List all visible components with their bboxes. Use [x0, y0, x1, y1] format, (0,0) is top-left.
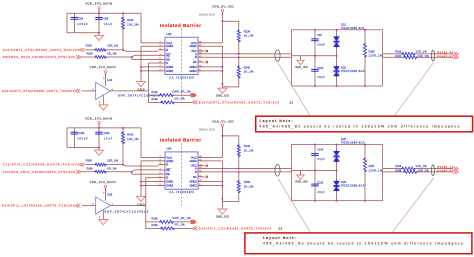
svg-text:VDD_3V3_MAIN: VDD_3V3_MAIN	[85, 2, 112, 6]
svg-text:GND2: GND2	[189, 180, 197, 184]
resistor R149 10R	[383, 170, 454, 174]
svg-text:GND_ISO: GND_ISO	[216, 214, 229, 218]
protection network box	[292, 30, 383, 86]
wire GND pins tie	[140, 161, 158, 196]
differential pair ellipse 1	[275, 165, 280, 177]
TVS diode D25 PESD1MB4.8CA	[334, 138, 365, 170]
port arrow out	[191, 220, 197, 224]
svg-text:1K_1%: 1K_1%	[244, 148, 254, 152]
capacitor C103 20pF	[311, 144, 325, 171]
svg-text:10R_1%: 10R_1%	[416, 165, 428, 168]
svg-text:GND2: GND2	[189, 184, 197, 188]
wire GND mid rail	[292, 55, 338, 57]
TVS diode D26 PESD1MB4.8CA	[334, 171, 365, 202]
svg-text:0R_1%: 0R_1%	[175, 223, 186, 227]
svg-text:R140: R140	[244, 65, 251, 69]
svg-text:B: B	[195, 170, 197, 174]
svg-text:C103: C103	[317, 149, 323, 152]
TVS diode D21 PESD1MB4.8CA	[334, 24, 365, 56]
capacitor C106 20pF	[311, 171, 325, 202]
resistor R140 1K pull-down	[222, 56, 254, 87]
wire A line	[205, 53, 292, 55]
svg-text:GND2: GND2	[189, 69, 197, 73]
svg-text:C100: C100	[317, 67, 323, 70]
isolation barrier dashed line	[181, 143, 183, 206]
isolator IC U24 CA-IS3082WX	[159, 147, 205, 195]
svg-text:R130: R130	[86, 45, 93, 48]
resistor R136 120R termination	[364, 29, 383, 87]
resistor R147 120R termination	[364, 144, 383, 202]
svg-text:R145: R145	[86, 159, 93, 162]
svg-text:100nF: 100nF	[77, 138, 88, 141]
ground GND under IC	[137, 196, 146, 206]
svg-text:RS485_B1: RS485_B1	[437, 169, 454, 173]
wire GND2 collector	[205, 161, 224, 202]
capacitor C100 20pF	[311, 56, 325, 87]
power flag VDD_3V3_MAIN	[85, 2, 112, 14]
svg-text:120R_1%: 120R_1%	[369, 169, 383, 172]
svg-text:20pF: 20pF	[317, 158, 325, 161]
svg-text:GND_ISO: GND_ISO	[295, 181, 308, 184]
svg-text:D14/SPI1_CS1/RS485_UART5_TXD/3: D14/SPI1_CS1/RS485_UART5_TXD/3V3	[199, 227, 271, 231]
svg-text:22R_1%: 22R_1%	[107, 45, 118, 48]
ground under caps	[95, 148, 104, 156]
ground GND_ISO in box	[295, 56, 308, 69]
ground GND_ISO under IC	[216, 202, 229, 219]
svg-text:GND1: GND1	[166, 159, 174, 163]
resistor R150 1K pull-down	[222, 171, 254, 202]
resistor R141 DNP_0R	[149, 90, 192, 97]
svg-text:C98: C98	[104, 17, 109, 20]
svg-text:Layout Note:: Layout Note:	[263, 236, 296, 240]
svg-text:U23: U23	[107, 78, 112, 82]
capacitor C98 10uF	[95, 13, 112, 33]
svg-text:GND_ISO: GND_ISO	[295, 66, 308, 69]
svg-text:VDD_3V3_MAIN: VDD_3V3_MAIN	[90, 180, 116, 184]
svg-text:0R_1%: 0R_1%	[107, 167, 117, 170]
resistor R152 0R	[146, 223, 193, 230]
svg-text:1K_1%: 1K_1%	[244, 70, 254, 74]
svg-text:NC: NC	[193, 60, 197, 64]
svg-text:PESD1MB4.8CA: PESD1MB4.8CA	[341, 185, 364, 188]
svg-text:U25: U25	[107, 193, 112, 197]
svg-text:R: R	[166, 48, 168, 52]
net label RS485_A2	[437, 51, 458, 56]
value label DNP_SN74LVC1G04DCK	[118, 95, 160, 98]
svg-text:R151: R151	[152, 217, 159, 221]
svg-text:E16/UART1_RTSn/RS485_UART3_TXD: E16/UART1_RTSn/RS485_UART3_TXD/3V3	[2, 89, 75, 93]
power flag VDD_5V_ISO	[199, 5, 234, 17]
svg-text:R131: R131	[396, 51, 402, 54]
svg-text:GND2: GND2	[189, 65, 197, 69]
differential pair ellipse 2	[432, 50, 435, 61]
power flag VDD_3V3_MAIN at buffer U23	[90, 65, 116, 86]
svg-text:120R_1%: 120R_1%	[369, 55, 383, 58]
leader line 3	[278, 178, 311, 232]
svg-text:GND: GND	[138, 89, 145, 92]
ground under buffer	[99, 95, 108, 110]
svg-text:Isolated Barrier: Isolated Barrier	[160, 138, 201, 143]
svg-text:20pF: 20pF	[317, 43, 325, 46]
svg-text:GND1: GND1	[166, 184, 174, 188]
svg-text:R150: R150	[244, 180, 251, 184]
net label D14/SPI1_CS1/RS485_UART5_TXD/3V3	[193, 226, 283, 230]
svg-text:DNP_0R_1%: DNP_0R_1%	[173, 90, 192, 94]
net label RS485_B2	[437, 55, 458, 60]
svg-text:GND: GND	[138, 203, 145, 206]
svg-text:PESD1MB4.8CA: PESD1MB4.8CA	[341, 142, 364, 145]
wire D pin	[146, 178, 159, 206]
svg-text:20pF: 20pF	[317, 191, 325, 194]
svg-text:R152: R152	[152, 223, 159, 227]
svg-text:Layout Note:: Layout Note:	[260, 119, 293, 123]
ground under buffer	[99, 210, 108, 225]
wire buffer output	[110, 90, 148, 92]
capacitor C96 100nF	[71, 13, 88, 33]
wire VDD_5V_ISO vertical	[205, 12, 224, 43]
wire VDD to pin1	[141, 128, 159, 158]
resistor R142 0R	[149, 97, 193, 104]
svg-text:RS485_B2: RS485_B2	[437, 55, 454, 59]
ground GND_ISO under IC	[216, 87, 229, 98]
net label D16/UART1_CTSn/RS485_UART3_RXD/3V3	[3, 48, 85, 52]
svg-text:C106: C106	[317, 182, 323, 185]
differential pair ellipse 2	[432, 165, 435, 176]
svg-text:R144: R144	[244, 144, 251, 148]
differential pair ellipse 1	[275, 50, 280, 62]
resistor R133 10K pull-up	[122, 12, 140, 50]
svg-text:R141: R141	[152, 90, 159, 94]
ground GND under IC	[137, 82, 146, 92]
svg-text:U22: U22	[167, 32, 172, 36]
svg-text:B: B	[195, 55, 197, 59]
svg-text:2.8: 2.8	[290, 100, 294, 104]
svg-text:GND1: GND1	[166, 44, 174, 48]
svg-text:DNP_SN74LVC1G04DCK: DNP_SN74LVC1G04DCK	[105, 211, 149, 214]
net label R3/PROG_PRU0_GPIO5/UART3_RTSn/3V3	[3, 55, 81, 59]
net label C12/SPI0_CS1/RS485_UART6_RXD/3V3	[3, 163, 85, 167]
svg-text:VDD_3V3_MAIN: VDD_3V3_MAIN	[85, 116, 112, 120]
svg-text:U24: U24	[167, 147, 172, 151]
svg-text:R133: R133	[127, 19, 134, 22]
svg-text:RS485_A1: RS485_A1	[437, 165, 454, 169]
wire GND pins tie	[140, 46, 158, 81]
resistor R148 10R	[383, 165, 454, 170]
svg-text:10uF: 10uF	[104, 138, 113, 141]
op-amp buffer U23	[92, 78, 113, 104]
svg-text:10R_1%: 10R_1%	[416, 51, 428, 54]
wire output tee	[148, 91, 150, 103]
resistor R132 10R	[383, 55, 454, 59]
svg-text:VDD_5V_ISO: VDD_5V_ISO	[212, 119, 234, 123]
capacitor C102 10uF	[95, 128, 112, 148]
Isolated Barrier title	[160, 23, 201, 28]
power flag VDD_3V3_MAIN	[85, 116, 112, 128]
power flag VDD_3V3_MAIN at buffer U25	[90, 180, 116, 201]
svg-text:R139: R139	[87, 53, 94, 56]
svg-text:GND1: GND1	[166, 180, 174, 184]
svg-text:3.8: 3.8	[279, 226, 283, 230]
svg-text:R149: R149	[396, 170, 402, 173]
capacitor C101 100nF	[71, 128, 88, 148]
svg-text:C102: C102	[104, 132, 111, 135]
value label DNP_SN74LVC1G04DCK	[105, 211, 149, 214]
svg-text:C12/SPI0_CS1/RS485_UART6_RXD/3: C12/SPI0_CS1/RS485_UART6_RXD/3V3	[3, 163, 79, 167]
power flag VDD_5V_ISO	[199, 119, 234, 131]
net label D14/SPI1_CS0/RS485_UART5_TXD/3V3 buffer input	[2, 204, 96, 208]
leader line 4	[392, 178, 434, 233]
svg-text:D14/SPI1_CS0/RS485_UART5_TXD/3: D14/SPI1_CS0/RS485_UART5_TXD/3V3	[2, 204, 75, 208]
Isolated Barrier title	[160, 138, 201, 143]
svg-text:R148: R148	[396, 165, 402, 168]
resistor R130 22R	[85, 45, 159, 52]
svg-text:NC: NC	[193, 175, 197, 179]
resistor R139 0R	[81, 53, 158, 59]
wire buffer output	[110, 205, 146, 207]
svg-text:R134: R134	[244, 29, 251, 33]
wire RE-DE tie	[131, 56, 159, 59]
port arrow out	[191, 93, 197, 97]
svg-text:10K_1%: 10K_1%	[127, 23, 139, 26]
svg-text:1K_1%: 1K_1%	[244, 34, 254, 38]
ground under caps	[95, 33, 104, 41]
wire D pin	[149, 63, 159, 91]
svg-text:PESD1MB4.8CA: PESD1MB4.8CA	[341, 27, 364, 30]
svg-text:0R_1%: 0R_1%	[107, 53, 117, 56]
svg-text:VDD_3V3_MAIN: VDD_3V3_MAIN	[90, 65, 116, 69]
wire A line	[205, 168, 292, 170]
op-amp buffer U25	[92, 193, 113, 219]
svg-text:485_Ax/485_Bx should be routed: 485_Ax/485_Bx should be routed in 100±10…	[263, 242, 463, 246]
resistor R144 1K pull-up	[222, 136, 254, 170]
net label E16/UART1_RTSn/RS485_UART3_TXD/3V3 buffer input	[2, 89, 96, 93]
leader line 1	[278, 63, 311, 116]
net label E16/UART1_RTSn/RS485_UART3_TXD/3V3	[193, 100, 294, 104]
svg-text:PESD1MB4.8CA: PESD1MB4.8CA	[341, 70, 364, 73]
svg-text:1K_1%: 1K_1%	[244, 184, 254, 188]
wire VDD rail	[67, 12, 141, 33]
svg-text:R136: R136	[369, 50, 376, 53]
svg-text:22R_1%: 22R_1%	[107, 159, 118, 162]
svg-text:D: D	[166, 176, 168, 180]
wire VDD_5V_ISO vertical	[205, 127, 224, 158]
resistor R134 1K pull-up	[222, 21, 254, 55]
svg-text:R142: R142	[152, 97, 159, 101]
svg-text:R132: R132	[396, 55, 402, 58]
wire output tee	[145, 206, 147, 229]
wire RE-DE tie	[131, 171, 159, 174]
net label RS485_B1	[437, 169, 458, 174]
layout note box 2	[245, 233, 472, 254]
wire B line	[205, 171, 292, 173]
svg-text:10K_1%: 10K_1%	[127, 138, 139, 141]
capacitor C97 20pF	[311, 29, 325, 56]
svg-text:C96: C96	[79, 17, 84, 20]
svg-text:R143: R143	[127, 134, 134, 137]
svg-text:R146: R146	[87, 167, 94, 170]
svg-text:GND_ISO: GND_ISO	[216, 94, 229, 98]
svg-text:GND1: GND1	[166, 69, 174, 73]
resistor R151 DNP_0R	[146, 216, 191, 223]
no-connect X marks	[206, 50, 208, 64]
svg-text:D16/UART1_CTSn/RS485_UART3_RXD: D16/UART1_CTSn/RS485_UART3_RXD/3V3	[3, 48, 80, 52]
svg-text:0R_1%: 0R_1%	[175, 97, 186, 101]
net label F4/PROG_PRU1_GPIO9/UART6_RTSn/3V3	[3, 170, 81, 174]
wire GND2 collector	[205, 46, 224, 87]
isolator IC U22 CA-IS3082WX	[159, 32, 205, 80]
svg-text:10R_1%: 10R_1%	[418, 55, 430, 58]
ground GND_ISO in box	[295, 171, 308, 184]
resistor R131 10R	[383, 51, 454, 56]
svg-text:R: R	[166, 163, 168, 167]
svg-text:GND1: GND1	[166, 65, 174, 69]
svg-text:C101: C101	[79, 132, 86, 135]
svg-text:C97: C97	[317, 34, 322, 37]
svg-text:R3/PROG_PRU0_GPIO5/UART3_RTSn/: R3/PROG_PRU0_GPIO5/UART3_RTSn/3V3	[3, 55, 76, 59]
svg-text:Isolated Barrier: Isolated Barrier	[160, 23, 201, 28]
svg-text:10uF: 10uF	[104, 23, 113, 26]
wire VDD to pin1	[141, 13, 159, 43]
no-connect X marks	[206, 165, 208, 179]
net label RS485_A1	[437, 165, 458, 170]
TVS diode D22 PESD1MB4.8CA	[334, 56, 365, 87]
svg-text:R147: R147	[369, 165, 376, 168]
resistor R145 22R	[85, 159, 159, 166]
svg-text:485_Ax/485_Bx should be routed: 485_Ax/485_Bx should be routed in 100±10…	[260, 125, 460, 129]
wire B line	[205, 56, 292, 58]
svg-text:250mA MAX: 250mA MAX	[199, 127, 215, 131]
svg-text:20pF: 20pF	[317, 76, 325, 79]
svg-text:RS485_A2: RS485_A2	[437, 51, 454, 55]
svg-text:DNP_0R_1%: DNP_0R_1%	[173, 216, 192, 220]
svg-text:D: D	[166, 61, 168, 65]
svg-text:E16/UART1_RTSn/RS485_UART3_TXD: E16/UART1_RTSn/RS485_UART3_TXD/3V3	[199, 101, 280, 105]
svg-text:10R_1%: 10R_1%	[418, 170, 430, 173]
isolation barrier dashed line	[181, 29, 183, 102]
protection network box	[292, 145, 383, 201]
wire VDD rail	[67, 127, 141, 148]
svg-text:250mA MAX: 250mA MAX	[199, 13, 215, 17]
svg-text:F4/PROG_PRU1_GPIO9/UART6_RTSn/: F4/PROG_PRU1_GPIO9/UART6_RTSn/3V3	[3, 170, 76, 174]
svg-text:GND2: GND2	[189, 44, 197, 48]
svg-text:DE: DE	[166, 57, 170, 61]
resistor R143 10K pull-up	[122, 127, 140, 165]
svg-text:GND2: GND2	[189, 159, 197, 163]
leader line 2	[394, 63, 434, 117]
wire GND mid rail	[292, 170, 338, 172]
svg-text:VDD_5V_ISO: VDD_5V_ISO	[212, 5, 234, 9]
svg-text:DE: DE	[166, 172, 170, 176]
svg-text:100nF: 100nF	[77, 23, 88, 26]
resistor R146 0R	[81, 167, 158, 173]
layout note box 1	[256, 116, 473, 132]
